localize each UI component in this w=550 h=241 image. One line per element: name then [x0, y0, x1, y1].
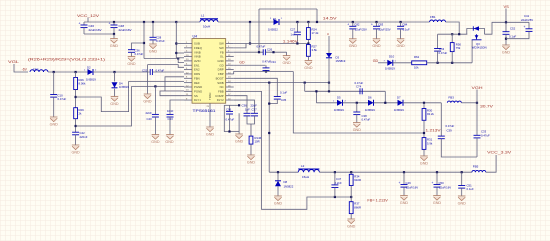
- svg-text:WD3415DN: WD3415DN: [472, 46, 487, 50]
- wire R30 bottom: [423, 120, 425, 137]
- svg-text:1nF: 1nF: [291, 32, 296, 36]
- svg-text:C82: C82: [354, 23, 360, 27]
- pin D5.1: [333, 101, 335, 103]
- wire GD to D10: [378, 62, 387, 64]
- junction SW pin1: [249, 42, 251, 44]
- capacitor C49: [399, 181, 408, 187]
- svg-text:GND: GND: [206, 132, 215, 136]
- ground GND21: [400, 196, 409, 205]
- wire to L2: [269, 171, 298, 173]
- svg-text:22uF/16V: 22uF/16V: [439, 186, 451, 190]
- wire R26-R29: [75, 90, 77, 108]
- wire C82 to gnd: [352, 29, 354, 39]
- svg-text:D6: D6: [368, 95, 372, 99]
- svg-text:0.47uF: 0.47uF: [135, 52, 144, 56]
- label C43: [168, 117, 174, 121]
- svg-text:1N5822: 1N5822: [284, 184, 294, 188]
- svg-text:C52: C52: [510, 27, 516, 31]
- wire C27 top lead: [296, 22, 298, 32]
- ground GND19: [502, 45, 511, 54]
- svg-text:93.2k: 93.2k: [427, 112, 434, 116]
- label C32 value: [156, 69, 165, 73]
- svg-text:GND: GND: [458, 201, 467, 205]
- wire D8 top: [277, 172, 279, 181]
- ground GND2: [127, 57, 136, 66]
- label C28: [156, 36, 162, 40]
- capacitor C42: [72, 132, 79, 135]
- svg-text:8.06k: 8.06k: [79, 82, 86, 86]
- no-ERC marker: [327, 32, 329, 36]
- ground GND16: [349, 39, 358, 48]
- diode D5: [337, 100, 343, 106]
- label L2: [301, 164, 305, 168]
- capacitor C82: [347, 23, 356, 29]
- wire FBP to divider: [293, 72, 424, 134]
- wire D3 to pump: [328, 59, 330, 92]
- wire to ground: [113, 34, 115, 39]
- diode D10: [387, 60, 393, 66]
- wire D4 to gnd: [114, 89, 116, 97]
- wire C96 loop top: [224, 104, 239, 106]
- svg-text:17.4k: 17.4k: [312, 31, 319, 35]
- svg-text:GND: GND: [247, 160, 256, 164]
- svg-text:GND: GND: [274, 201, 283, 205]
- label C27 value: [291, 32, 296, 36]
- wire rail to FB1: [353, 21, 430, 23]
- label R146: [255, 136, 262, 140]
- wire C50 to gnd: [436, 187, 438, 195]
- resistor R27: [307, 45, 311, 57]
- label C35: [281, 98, 287, 102]
- svg-text:C96: C96: [226, 108, 232, 112]
- annotation FB voltage: [367, 199, 388, 203]
- wire C33 bottom: [476, 138, 478, 157]
- wire PGND loop: [160, 91, 184, 96]
- wire VS port: [505, 9, 507, 23]
- svg-text:22uF/25V: 22uF/25V: [379, 28, 391, 32]
- annotation 1.213V: [426, 128, 442, 132]
- svg-text:866R: 866R: [354, 205, 361, 209]
- svg-text:TPS65161: TPS65161: [193, 109, 216, 113]
- capacitor C32: [150, 69, 152, 75]
- ferrite bead FB2: [30, 70, 48, 72]
- label R30 value: [427, 112, 434, 116]
- op-amp U1 - IC U4 TPS65161 body: [184, 34, 234, 127]
- wire SWB to L2: [268, 83, 270, 173]
- svg-text:0.47uF: 0.47uF: [58, 97, 67, 101]
- junction D4 top: [113, 71, 115, 73]
- label C48 value: [119, 28, 132, 32]
- wire bus AVIN: [144, 58, 178, 60]
- label C10: [58, 94, 64, 98]
- svg-text:22uF/16V: 22uF/16V: [119, 28, 132, 32]
- wire R26 top: [75, 72, 77, 78]
- label C35 value: [280, 90, 287, 94]
- label D3 value: [336, 59, 346, 63]
- junction rail x153: [152, 21, 154, 23]
- ground GND12: [247, 155, 256, 164]
- label C96: [226, 108, 232, 112]
- label C43 value: [167, 109, 174, 113]
- label R26: [79, 78, 85, 82]
- capacitor C51: [458, 186, 465, 189]
- wire C34 bottom: [265, 71, 267, 72]
- diode D3: [326, 53, 332, 58]
- wire C28 to gnd: [152, 40, 154, 44]
- svg-text:+: +: [371, 23, 373, 27]
- junction SW node: [249, 21, 251, 23]
- wire R34 top: [350, 172, 352, 174]
- wire REF line: [132, 85, 185, 87]
- capacitor C34: [263, 68, 270, 71]
- wire SUB pin: [176, 43, 184, 45]
- label R26 value: [79, 82, 86, 86]
- label R62 value: [414, 66, 419, 70]
- svg-text:VGH: VGH: [472, 85, 483, 90]
- wire C52 bottom: [505, 34, 507, 45]
- wire drop SUB VINB: [175, 22, 177, 58]
- label R29: [79, 108, 85, 112]
- svg-text:C26: C26: [267, 47, 273, 51]
- junction C27 top: [296, 21, 298, 23]
- label C47 value: [335, 181, 342, 185]
- svg-text:+: +: [109, 21, 111, 25]
- diode D7: [398, 100, 404, 106]
- junction R30 top: [423, 102, 425, 104]
- label R34 value: [354, 178, 361, 182]
- label C84 value: [403, 28, 410, 32]
- resistor R31: [422, 138, 426, 150]
- pin D10.1: [384, 60, 386, 62]
- junction C47 bottom: [334, 196, 336, 198]
- annotation -6V: [22, 68, 28, 72]
- capacitor C36: [128, 50, 135, 53]
- svg-text:GND: GND: [143, 99, 152, 103]
- label D4 value: [119, 85, 129, 89]
- wire Q3 drain to VS rail: [485, 22, 530, 34]
- ground GND13: [282, 56, 291, 65]
- junction C47 top: [334, 171, 336, 173]
- wire C47 to fb line: [334, 188, 336, 198]
- wire C41 top: [528, 22, 530, 29]
- wire C53 top: [437, 34, 439, 48]
- ground GND14: [304, 61, 313, 70]
- label C50 value: [439, 186, 451, 190]
- wire C40 to gnd: [154, 117, 156, 135]
- junction bypass rail: [316, 21, 318, 23]
- wire SW drop: [249, 22, 251, 44]
- inductor L2: [298, 169, 319, 172]
- capacitor C46: [79, 21, 88, 27]
- svg-text:C32: C32: [142, 69, 148, 73]
- label D2 value: [86, 77, 96, 81]
- svg-text:1N5819: 1N5819: [385, 66, 395, 70]
- junction C84: [400, 21, 402, 23]
- junction R24 top: [307, 21, 309, 23]
- junction C35 SWB: [268, 103, 270, 105]
- junction C83: [375, 21, 377, 23]
- wire gate drop: [471, 40, 473, 63]
- svg-text:TPAD: TPAD: [208, 93, 212, 100]
- wire C39 bottom rail: [441, 139, 477, 157]
- wire C82 top: [352, 22, 354, 26]
- wire C33 top: [476, 103, 478, 136]
- svg-text:GND: GND: [151, 140, 160, 144]
- junction C41 return: [505, 38, 507, 40]
- wire R34 R37: [350, 186, 352, 202]
- label C49 value: [406, 186, 418, 190]
- label C26: [267, 47, 273, 51]
- diode D1: [274, 19, 280, 25]
- wire C96 top: [229, 105, 231, 111]
- wire D6 to D7: [374, 102, 398, 104]
- svg-text:GD: GD: [239, 60, 245, 64]
- label C82: [354, 23, 360, 27]
- wire C43 to gnd: [169, 117, 171, 135]
- junction FBN node: [75, 96, 77, 98]
- wire rail to L1: [176, 21, 200, 23]
- wire COMP to C36b: [234, 96, 247, 114]
- svg-text:0.47uF: 0.47uF: [362, 118, 371, 122]
- wire 14.5V rail: [279, 21, 353, 23]
- svg-text:10k: 10k: [414, 66, 419, 70]
- label R50 value: [456, 46, 461, 50]
- pin number D1.1: [270, 18, 272, 20]
- svg-text:GND: GND: [420, 161, 429, 165]
- label FB2: [33, 68, 39, 72]
- svg-text:C74: C74: [356, 85, 362, 89]
- capacitor C37: [251, 113, 258, 116]
- ground GND3: [149, 44, 158, 53]
- ground GND6: [110, 97, 119, 106]
- svg-text:GND: GND: [400, 201, 409, 205]
- label FB3: [448, 95, 454, 99]
- svg-text:+: +: [347, 23, 349, 27]
- svg-text:GND: GND: [282, 61, 291, 65]
- resistor R24: [307, 28, 311, 40]
- label C46 value: [89, 28, 102, 32]
- wire FB1 to Q3 rail: [446, 22, 460, 34]
- svg-text:C40: C40: [147, 117, 153, 121]
- junction rail x176: [175, 21, 177, 23]
- junction divider mid: [307, 42, 309, 44]
- label Q3 value: [472, 46, 487, 50]
- label R31: [427, 138, 433, 142]
- wire C32 to EN2 pin: [152, 71, 184, 73]
- wire D10 to R62: [393, 62, 412, 64]
- svg-text:1N5819: 1N5819: [336, 59, 346, 63]
- power label VS: [504, 4, 510, 9]
- label C53 value: [439, 51, 448, 55]
- svg-text:2.2nF: 2.2nF: [335, 181, 342, 185]
- capacitor C38: [353, 112, 360, 115]
- label C34: [271, 60, 277, 64]
- svg-text:GND: GND: [127, 62, 136, 66]
- ground GND25: [458, 196, 467, 205]
- wire C41 bottom: [506, 31, 529, 38]
- svg-text:22nF: 22nF: [146, 111, 153, 115]
- capacitor C35: [274, 97, 281, 100]
- label D1 value: [268, 28, 278, 32]
- svg-text:GND: GND: [110, 102, 119, 106]
- wire R37 to gnd: [350, 214, 352, 219]
- label C10 value: [58, 97, 67, 101]
- svg-text:C49: C49: [406, 181, 412, 185]
- svg-text:GND: GND: [304, 66, 313, 70]
- wire R29 to REF: [76, 86, 132, 126]
- junction R34 R37: [350, 196, 352, 198]
- capacitor C41: [524, 25, 533, 31]
- capacitor C47: [331, 185, 338, 188]
- ground GND20: [274, 196, 283, 205]
- junction FB1 drop: [458, 33, 460, 35]
- junction VGH: [476, 102, 478, 104]
- capacitor C40: [152, 114, 159, 117]
- svg-text:1N5819: 1N5819: [119, 85, 129, 89]
- label C96 value: [226, 117, 235, 121]
- wire DRN route: [165, 77, 184, 91]
- wire C84 to gnd: [400, 29, 402, 39]
- label D10: [389, 54, 395, 58]
- junction C50: [436, 171, 438, 173]
- label C33: [481, 129, 487, 133]
- wire bypass left drop: [258, 9, 260, 52]
- wire R146 to gnd: [250, 144, 252, 155]
- svg-text:1N5819: 1N5819: [86, 77, 96, 81]
- svg-text:14.5V: 14.5V: [323, 16, 338, 20]
- wire C96 bottom: [229, 114, 231, 132]
- label C51 value: [467, 187, 474, 191]
- diode D8: [275, 181, 281, 187]
- junction FB node: [296, 42, 298, 44]
- wire C47 lead: [334, 172, 336, 185]
- wire D4 top: [114, 72, 116, 82]
- wire C96 loop: [224, 105, 239, 131]
- svg-text:C35: C35: [281, 98, 287, 102]
- wire C48 top lead: [113, 22, 115, 25]
- label C39: [447, 129, 453, 133]
- junction C40 tap: [154, 85, 156, 87]
- annotation 30.7V: [480, 105, 494, 109]
- label D3: [336, 55, 340, 59]
- label C48: [119, 24, 125, 28]
- wire FB3 right: [461, 102, 477, 104]
- wire D3 top: [328, 36, 330, 53]
- label C36b value: [245, 107, 250, 111]
- svg-text:75k: 75k: [456, 46, 461, 50]
- svg-text:GND: GND: [396, 44, 405, 48]
- svg-text:GND: GND: [149, 49, 158, 53]
- label D1: [273, 17, 277, 21]
- svg-text:910R: 910R: [354, 178, 361, 182]
- svg-text:VS: VS: [504, 4, 510, 9]
- svg-text:0.47uF: 0.47uF: [446, 124, 455, 128]
- svg-text:C34: C34: [271, 60, 277, 64]
- junction D3 SWB: [328, 82, 330, 84]
- capacitor C48: [109, 21, 118, 27]
- junction C10 tap: [53, 71, 55, 73]
- label C39 value: [446, 124, 455, 128]
- label C40 value: [146, 111, 153, 115]
- capacitor C74: [360, 88, 362, 94]
- label D8 value: [284, 184, 294, 188]
- junction C42 node: [75, 125, 77, 127]
- wire C27 bottom lead: [296, 35, 298, 44]
- svg-text:10nF: 10nF: [167, 109, 174, 113]
- inductor L1: [200, 19, 218, 22]
- capacitor C10: [50, 95, 57, 98]
- net label GD: [373, 59, 379, 63]
- svg-text:C39: C39: [447, 129, 453, 133]
- wire SWB BOOT line: [234, 82, 329, 84]
- wire drop to C28: [152, 22, 154, 37]
- wire C50 top: [436, 172, 438, 184]
- label Q3: [476, 42, 480, 46]
- svg-text:+: +: [79, 21, 81, 25]
- wire C39 column: [440, 103, 442, 136]
- svg-text:DLY2: DLY2: [217, 98, 224, 102]
- svg-text:FB3: FB3: [448, 95, 454, 99]
- junction C53 bottom: [437, 62, 439, 64]
- svg-text:GND: GND: [235, 139, 244, 143]
- pin number D1.2: [281, 18, 283, 20]
- svg-text:0.47uF: 0.47uF: [257, 44, 266, 48]
- wire EN1 route: [148, 65, 185, 68]
- wire C46 top lead: [83, 22, 85, 25]
- wire L2 output rail: [319, 171, 472, 173]
- wire top bypass: [259, 8, 317, 10]
- junction C38: [356, 102, 358, 104]
- label GND9: [165, 140, 174, 144]
- svg-text:GND: GND: [347, 224, 356, 228]
- wire SW pin and FB feedforward line: [234, 43, 309, 45]
- wire gate join: [471, 39, 473, 41]
- label C83 value: [379, 28, 391, 32]
- label C74: [356, 85, 362, 89]
- junction FB dot: [272, 51, 274, 53]
- capacitor C50: [432, 181, 441, 187]
- svg-text:VCC_3.3V: VCC_3.3V: [487, 150, 511, 155]
- wire C10 lead: [53, 72, 55, 95]
- svg-text:FB= 1.213V: FB= 1.213V: [367, 199, 388, 203]
- svg-text:0.1uF: 0.1uF: [403, 28, 410, 32]
- wire C52 top: [505, 22, 507, 31]
- ground GND9: [166, 135, 174, 140]
- pin D10.2: [395, 60, 397, 62]
- junction C96 gnd: [228, 130, 230, 132]
- capacitor C52: [503, 32, 510, 35]
- wire C35 bottom: [269, 99, 277, 104]
- junction C74 pump: [384, 102, 386, 104]
- svg-text:(R26+R29)/R29=(VGL/3.233+1): (R26+R29)/R29=(VGL/3.233+1): [28, 57, 106, 61]
- label C36 value: [135, 52, 144, 56]
- wire C40 top lead: [154, 86, 156, 114]
- wire VGH port: [476, 90, 478, 103]
- label D7 value: [394, 108, 404, 112]
- ground GND18: [396, 39, 405, 48]
- wire FBP line: [234, 72, 294, 75]
- resistor R34: [349, 174, 353, 185]
- ferrite bead FB1: [430, 20, 446, 22]
- junction C49: [403, 171, 405, 173]
- label C28 value: [156, 39, 165, 43]
- wire R50 bottom: [451, 52, 453, 63]
- wire BOOT to C35: [234, 78, 278, 96]
- label D5: [337, 95, 341, 99]
- label D2: [87, 66, 91, 70]
- wire VGL port: [14, 64, 28, 72]
- wire C34 top: [265, 65, 267, 68]
